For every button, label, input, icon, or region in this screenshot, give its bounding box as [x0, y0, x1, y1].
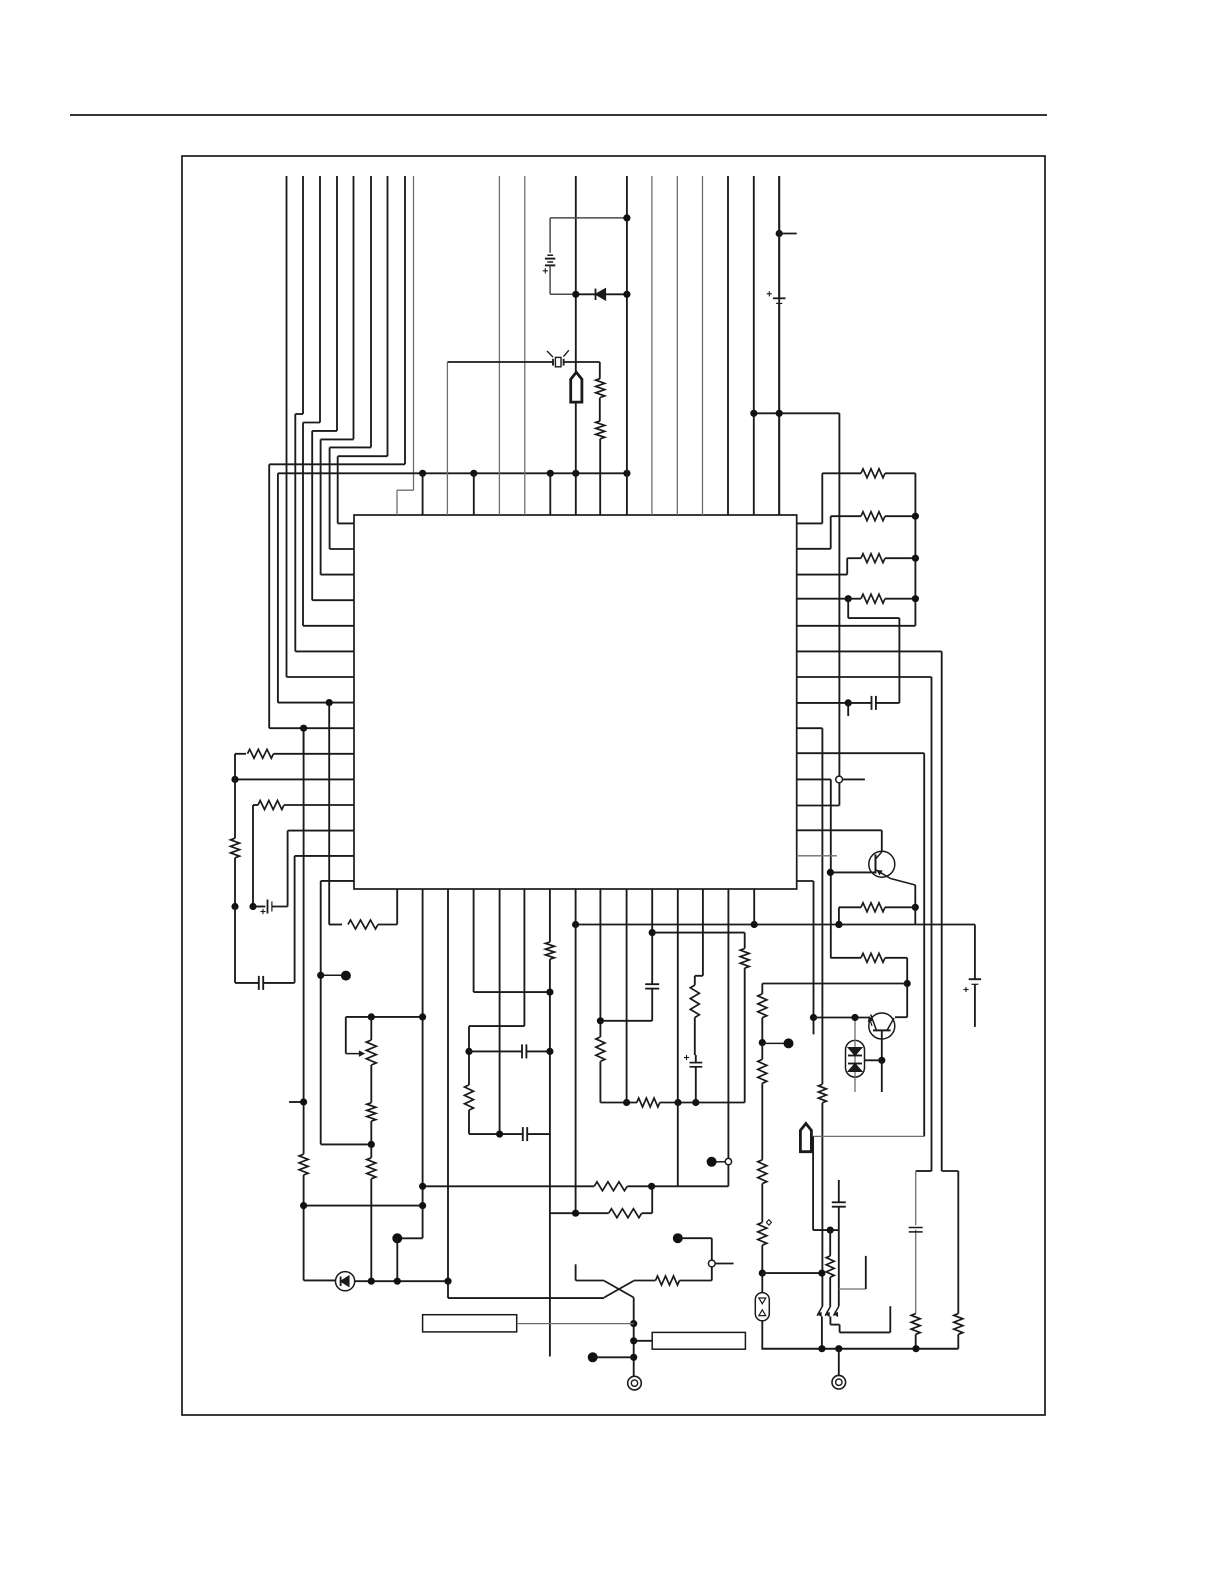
wire row 924.5 right segment — [576, 924, 975, 926]
wire row 1016.9 pot top net — [346, 1016, 423, 1018]
wire row 932.6 to resistor column x=744.7 — [652, 932, 745, 934]
wire crystal left leg down x=447.4 — [446, 362, 448, 515]
ground rail row 1349.1 — [761, 1348, 958, 1350]
junction dots on terminal column — [630, 1320, 637, 1327]
page top rule — [70, 114, 1047, 116]
wire IC right pin row 523.4 jog up — [797, 522, 823, 524]
column x=469 jog from 524.4 — [469, 1025, 524, 1027]
gray stub IC pin row 855.8 — [797, 855, 837, 857]
wire column to box2 — [634, 1340, 653, 1342]
capacitor C-r1 row 702.9 — [848, 702, 871, 704]
resistor R-r6 on x=958.3 — [954, 1314, 963, 1335]
wire stub above X — [575, 1264, 577, 1280]
left bus wires from top with staircase jogs to IC left pins — [286, 176, 288, 677]
IC U1 main microcontroller block — [354, 515, 797, 889]
wire row 1186.3 with resistor — [423, 1185, 595, 1187]
wire row y=362 crystal net — [447, 361, 553, 363]
junction dot row 728.2 at x=303.6 — [300, 725, 307, 732]
resistor R-b2 on x=371.3 — [367, 1103, 376, 1121]
resistor R-sw1 on x=822.4 — [818, 1084, 826, 1102]
wire row 1136.4 gray — [813, 1135, 924, 1137]
wire IC right pin row 830.3 collector net — [797, 829, 882, 831]
wire Q2 emitter row 1017.5 — [814, 1017, 870, 1019]
wire row 1102.5 with resistor — [600, 1102, 637, 1104]
IC bottom pin columns — [422, 889, 424, 1238]
wire IC right pin row 702.9 with cap — [797, 702, 849, 704]
junction dot (626.9,218) — [623, 214, 630, 221]
column x=549.9 with resistor — [549, 889, 551, 942]
column x=652.2 with capacitor — [651, 889, 653, 984]
wire Q2 base down — [881, 1030, 883, 1060]
gray wire row 1289 free L — [839, 1288, 866, 1290]
resistor R-q1 row 907.3 — [839, 906, 861, 908]
resistor R-r1 row 473.3 — [861, 469, 885, 478]
wire 652.2 cap bottom to 600.4 — [600, 1020, 652, 1022]
resistor R-r3 row 558.2 — [861, 554, 885, 563]
wire row y=983.5 from resistor stack corner — [762, 983, 907, 985]
box REG1 — [423, 1315, 517, 1332]
junction dot (848.2,702.9) — [845, 699, 852, 706]
wire IC right pin row 600.2 — [797, 598, 849, 600]
resistor R-r2 row 516.2 — [861, 512, 885, 521]
diode D1 on row 294.3 pointing left — [596, 289, 606, 300]
LED/diode indicator DL1 in circle — [336, 1272, 355, 1291]
resistor R-l3 row 805 — [253, 804, 258, 806]
wire jog 422.6 to 397.3 — [397, 1237, 422, 1239]
column 915.7 jog from 931.5 — [916, 1170, 932, 1172]
wire IC right pin row 677 to x=931.5 — [797, 676, 932, 678]
wire IC right pin row 549 jog up — [797, 548, 831, 550]
terminal T1 double circle — [628, 1376, 642, 1390]
wire IC pin row 880.9 to x=320.7 — [321, 880, 354, 882]
wire row 924.5 left segment with resistor — [329, 924, 342, 926]
resistor R-m1 on x=694.8 — [690, 985, 699, 1017]
crystal X1 — [555, 357, 561, 366]
wire row 992.1 — [474, 991, 550, 993]
wire top column x=413.5 jog to IC top pin x=397 — [413, 176, 415, 490]
wire IC right pin row 574.6 jog up — [797, 574, 848, 576]
junction dots on x=915.4 — [912, 513, 919, 520]
wire jog to IC pin row 830.6 — [287, 831, 289, 907]
pot wiper arm — [345, 1017, 347, 1054]
connector circle P2 — [708, 1260, 715, 1267]
capacitor C-sw on x=838.8 — [838, 1180, 840, 1202]
wire pill right to base dot — [865, 1059, 882, 1061]
wire IC right pin row 753.2 to x=924.2 — [797, 752, 925, 754]
junction dot (549.9,992.1) — [546, 989, 553, 996]
box REG2 — [652, 1332, 745, 1349]
terminal T2 double circle — [838, 1349, 840, 1375]
resistor R-osc2 vertical — [596, 421, 605, 439]
junction dot (652.2,932.6) — [649, 929, 656, 936]
resistor R-sw on x=830.2 — [826, 1256, 834, 1277]
wire column 813.1 to dot row 1230.1 — [812, 1136, 814, 1230]
junction dot (600.4,1020.8) — [597, 1017, 604, 1024]
wire column x=839.4 down to connector circle — [838, 413, 840, 776]
wire big dot 677.8 to P2 top — [673, 1233, 683, 1243]
junction dots on row 473.3 — [419, 470, 426, 477]
connector circle P1 — [836, 776, 843, 783]
connector big dot + circle row 1161.8 — [707, 1157, 717, 1167]
transistor Q2 PNP — [869, 1013, 895, 1039]
wire IC right pin row 651.4 to x=941.7 — [797, 650, 942, 652]
resistor R-r5 on x=915.7 — [911, 1314, 920, 1335]
wire corner (762.3,983.5) resistor stack top — [761, 984, 763, 994]
capacitor C-r2 on x=915.7 — [915, 1230, 917, 1314]
resistor R-osc1 vertical — [596, 379, 605, 398]
junction dot (469,1051.4) — [465, 1048, 472, 1055]
wire LED row to dots — [371, 1280, 448, 1282]
column x=329.2 down from row 702.3 — [328, 703, 330, 925]
wire IC right pin row 881.8 to x=813.5 — [797, 880, 814, 882]
resistor R-q2 row 957.8 — [830, 957, 861, 959]
column x=702.9 jog resistor cap — [702, 889, 704, 976]
schematic border frame — [182, 156, 1045, 1415]
capacitor C-b1 row 1051.4 — [469, 1050, 522, 1052]
switch SW1 three blades — [817, 1306, 822, 1316]
junction dot (848.2,598.7) — [845, 595, 852, 602]
junction dot (838.9,924.5) — [835, 921, 842, 928]
gray wire box1 to column — [517, 1323, 634, 1325]
wire Q2 collector — [895, 1016, 907, 1018]
resistor R-b1 on x=303.6 — [299, 1154, 308, 1175]
wire jog from dot 598.7 to cap column — [847, 599, 849, 618]
wire Q1 emitter to x=915.3 — [891, 879, 916, 886]
transistor Q1 PNP — [869, 851, 895, 877]
wire IC right pin row 728.2 jog right — [797, 727, 823, 729]
stub at (289,1102) — [289, 1101, 304, 1103]
wire row 1332.4 free L — [840, 1331, 891, 1333]
wire row y=413.3 to right column — [754, 412, 840, 414]
wire stubs row473 to IC top edge — [422, 473, 424, 515]
column x=626.6 — [626, 889, 628, 1103]
wire row y=805.5 to IC right pin — [797, 805, 840, 807]
column 958.3 jog from 941.7 — [942, 1170, 959, 1172]
column x=575.6 — [575, 889, 577, 1213]
wire row 1213.2 with resistor — [550, 1212, 609, 1214]
column x=303.6 down from row 727.5 — [303, 728, 305, 1154]
battery B1 multi-cell — [549, 218, 551, 253]
junction dot (915.3,907.3) — [912, 904, 919, 911]
battery B2 on x=974.9 — [974, 925, 976, 980]
wire crystal right leg x=599.8 with resistors — [599, 362, 601, 379]
wire IC pin row 855.9 — [295, 855, 354, 857]
wire row 1357.3 with big dot — [588, 1352, 598, 1362]
wire row 1205.6 — [304, 1205, 423, 1207]
polarized cap C-m1 on x=695.8 — [695, 1055, 697, 1062]
wire col 830.4 below switch to row 1332.4 — [829, 1317, 831, 1325]
zener pair ZD1 in pill — [846, 1040, 865, 1077]
polarized capacitor C-top on x=779.2 — [778, 176, 780, 298]
resistor stack column x=762.3 — [758, 994, 767, 1018]
fuse F2 pointed pill symbol — [800, 1124, 811, 1152]
wire row 1144.4 — [321, 1143, 372, 1145]
junction dot (830.4,872.4) — [827, 869, 834, 876]
junction dots row 413.3 — [750, 410, 757, 417]
junction dot (320.7,975.3) with blob — [317, 972, 324, 979]
wire X right to resistor row 1280.5 — [634, 1280, 656, 1282]
junction dot (779.2,233.5) with stub — [776, 230, 783, 237]
junction dots row 294.3 — [572, 291, 579, 298]
top bus verticals to IC top pins — [498, 176, 500, 515]
wire Q1 collector down — [881, 830, 883, 851]
wire net row y=473.3 feeding IC top pins — [278, 472, 627, 474]
wire Q1 base row — [830, 871, 875, 873]
stub below dot 702.9 — [847, 703, 849, 716]
wire column x=830.8 down — [830, 779, 832, 957]
wire row 779.4 from dot to IC — [235, 778, 354, 780]
column x=677.8 — [677, 889, 679, 1186]
resistor R-b3 on x=371.3 — [367, 1158, 376, 1179]
junction dot (881.8,1060.3) — [878, 1057, 885, 1064]
potentiometer R-pot vertical — [370, 1017, 372, 1040]
wire to blob dot — [762, 1042, 788, 1044]
junction dot (813.5,1017.5) Q2 emitter node — [810, 1014, 817, 1021]
transistor X crossing wires — [604, 1281, 634, 1298]
resistor R-l1 row 753.8 — [235, 753, 246, 755]
wire row 1273.1 — [762, 1272, 822, 1274]
column x=600.4 with resistor — [599, 889, 601, 1037]
right ladder vertical x=915.4 — [914, 473, 916, 626]
junction dot (235,779.4) — [231, 776, 238, 783]
wire row y=779.4 IC pin to corner x=830.8 — [797, 778, 831, 780]
resistor R-r4 row 598.7 — [861, 594, 885, 603]
wire corner 448 down to row 1298.1 — [447, 1281, 449, 1298]
wire IC right pin row 625.8 — [797, 625, 916, 627]
wire row y=294.3 battery bottom — [550, 293, 576, 295]
capacitor C-b2 row 1134.1 — [469, 1133, 500, 1135]
wire row y=218 battery top — [550, 217, 627, 219]
resistor R-m2 on x=469 — [465, 1085, 474, 1110]
column x=728.4 to connector circle — [727, 889, 729, 1159]
junction dot row 702.6 at x=329.2 — [326, 699, 333, 706]
junction dot (907.2,983.5) — [904, 980, 911, 987]
capacitor C-l2 row 982.9 — [235, 982, 259, 984]
polarized cap C-l1 row 906.5 — [231, 903, 238, 910]
resistor R-l2 vertical on x=235 — [234, 779, 236, 838]
wire X bottom to terminal column — [633, 1298, 635, 1377]
junction dots row 924.5 — [572, 921, 579, 928]
resonator/fuse F1 pointed pill symbol — [571, 372, 582, 402]
small diamond marker — [766, 1220, 771, 1226]
neon lamp NE1 — [755, 1293, 769, 1321]
column x=754.2 — [753, 889, 755, 925]
